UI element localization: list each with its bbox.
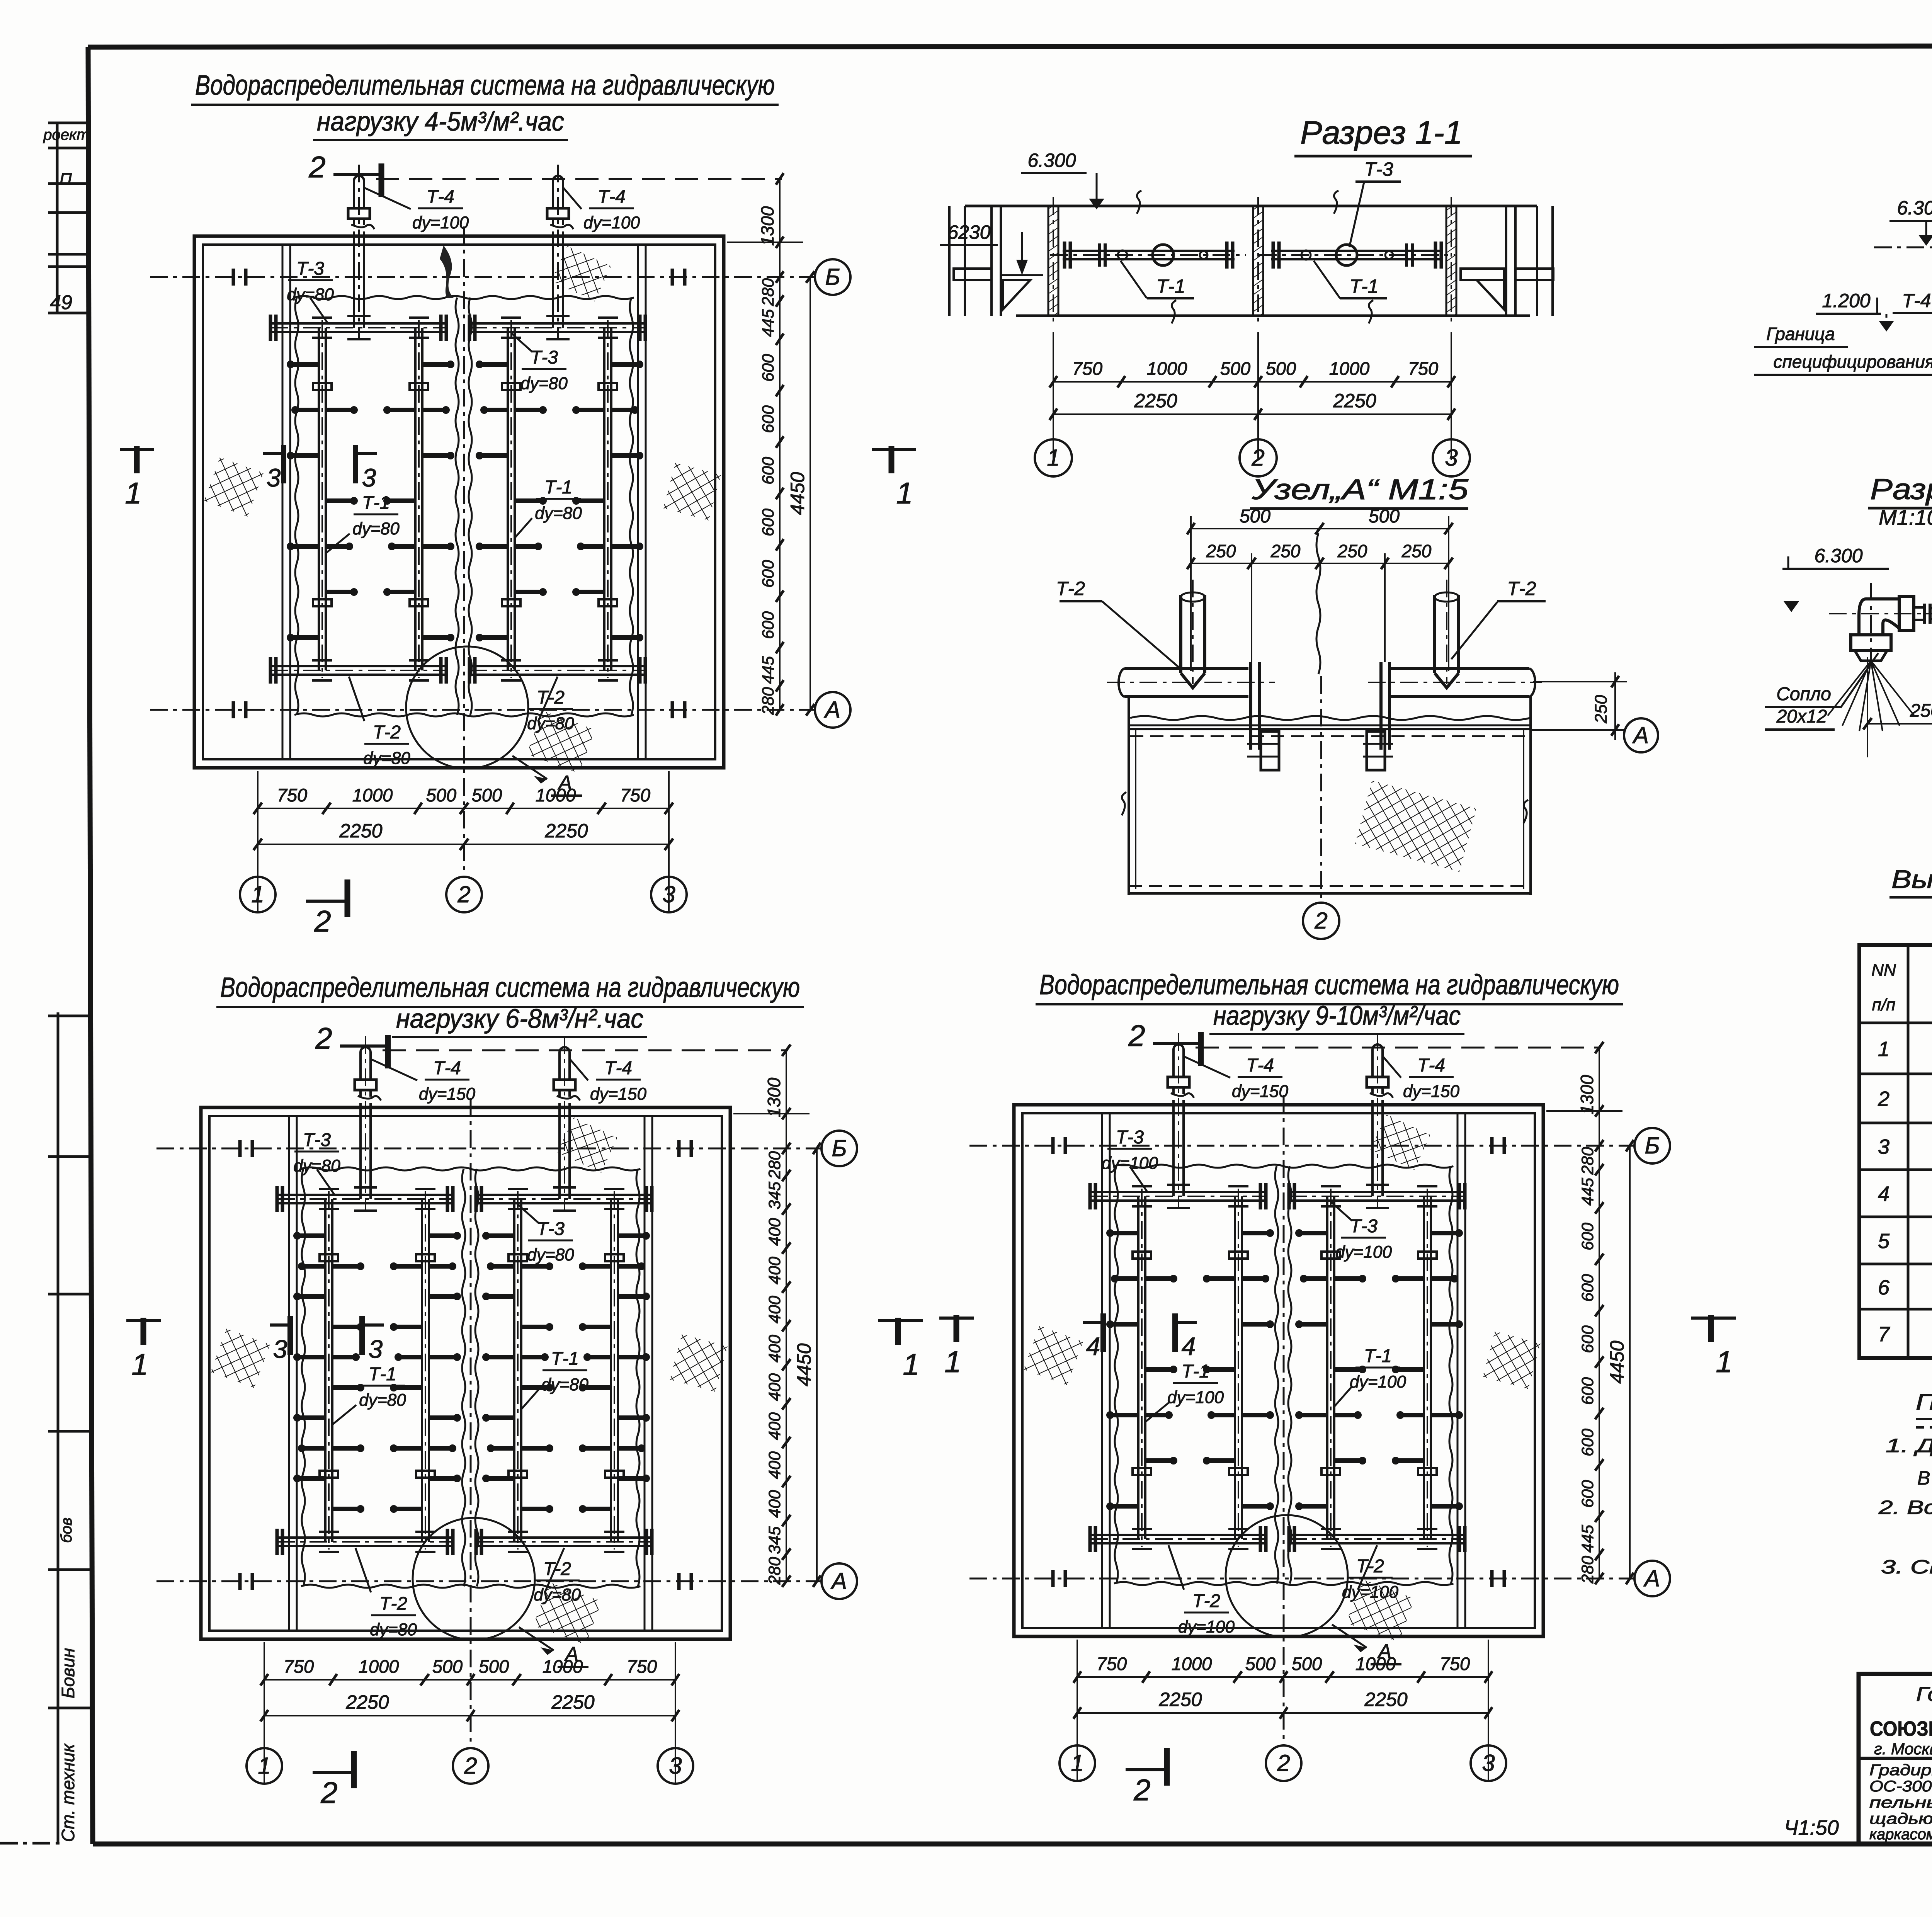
plan 4-5: top header pipe T-3 (left section) [270,315,446,341]
node A: dimension 250 x4 [1187,541,1453,569]
svg-text:dy=150: dy=150 [590,1085,647,1104]
svg-text:250: 250 [1910,701,1932,721]
svg-text:Бовин: Бовин [58,1648,78,1698]
svg-text:Т-1: Т-1 [369,1364,396,1385]
PARTS TABLE heading [1889,865,1932,941]
svg-text:500: 500 [1369,506,1400,527]
svg-text:Т-2: Т-2 [379,1594,407,1614]
PARTS TABLE header text [1871,947,1932,1019]
plan 6-8: right dimension chain [733,1044,821,1587]
section 1-1: dimension chain row1 [1049,332,1455,460]
svg-text:Т-4: Т-4 [1246,1055,1274,1076]
svg-text:400: 400 [765,1451,784,1479]
plan 6-8: lateral pipe T-1 #1 [294,1189,363,1552]
left margin signature strip [48,1012,93,1844]
plan 9-10: riser pipe T-4 #1 [1167,1033,1194,1208]
svg-text:500: 500 [1240,506,1270,527]
svg-text:2. Все трубы должны быть: 2. Все трубы должны быть покрыты антикор… [1878,1497,1932,1518]
svg-text:Водораспределительная система: Водораспределительная система на гидравл… [195,70,775,101]
svg-text:Примечания:: Примечания: [1916,1390,1932,1415]
svg-text:Т-3: Т-3 [1116,1127,1144,1148]
svg-text:1000: 1000 [543,1656,583,1677]
plan 6-8: label T-2 left [355,1548,417,1639]
svg-text:2250: 2250 [1134,390,1177,412]
svg-text:dy=100: dy=100 [583,213,640,232]
left margin stamp boxes [43,123,89,314]
svg-text:1: 1 [251,881,264,907]
plan 4-5: lateral pipe T-1 #1 [288,318,357,680]
svg-text:2: 2 [1133,1773,1150,1807]
plan 4-5: riser head axis line [376,178,782,180]
svg-text:dy=80: dy=80 [541,1375,588,1394]
svg-text:dy=150: dy=150 [1232,1082,1289,1101]
node A: water surface wavy [1130,716,1530,720]
svg-text:3: 3 [273,1335,287,1363]
svg-text:250: 250 [1401,541,1432,561]
svg-text:2: 2 [1878,1087,1889,1111]
plan 4-5: cut flag 1 left [120,446,154,510]
svg-text:Градирни с вент. ляторами: Градирни с вент. ляторами [1869,1762,1932,1779]
svg-text:нагрузку 9-10м³/м²/час: нагрузку 9-10м³/м²/час [1213,1000,1461,1031]
node A: axis А line and bubble [1532,729,1624,731]
svg-text:3: 3 [267,463,281,492]
svg-text:2250: 2250 [1333,390,1376,412]
plan 9-10: right dimension chain [1546,1042,1634,1584]
svg-text:250: 250 [1592,695,1611,724]
svg-text:1: 1 [131,1347,148,1381]
plan 4-5: axis bubbles Б А [815,259,850,728]
plan 6-8: bottom header pipe T-2 (right section) [476,1529,652,1555]
svg-text:4: 4 [1878,1182,1889,1206]
TITLE BLOCK [1859,1674,1932,1844]
plan 9-10: cut flag 2 bottom [1126,1748,1167,1807]
svg-text:600: 600 [1578,1223,1597,1250]
svg-text:2250: 2250 [339,820,382,842]
svg-text:1: 1 [944,1345,961,1379]
plan 6-8: bottom dimension chain row1 [260,1642,679,1784]
plan 9-10: bottom header pipe T-2 (right section) [1289,1526,1465,1552]
Разрез 3-3: elbow + nozzle left [1828,583,1932,731]
svg-text:1300: 1300 [1577,1075,1597,1114]
plan 6-8: section axis I-beam ticks [240,1140,691,1590]
svg-text:400: 400 [765,1373,784,1401]
svg-text:6.300: 6.300 [1897,197,1932,219]
svg-text:Т-1: Т-1 [1350,276,1379,297]
svg-text:1: 1 [896,476,913,510]
plan 9-10: water edge wavy walls [1114,1165,1453,1585]
section 1-1: right wall with ledge [1505,206,1507,316]
svg-text:Т-3: Т-3 [537,1219,565,1239]
plan 9-10: basin outer walls [1014,1105,1543,1636]
svg-text:500: 500 [432,1656,463,1677]
plan 6-8: cut flag 2 bottom [313,1751,354,1810]
svg-text:1300: 1300 [757,206,777,246]
node A: riser arrow left [1181,580,1205,688]
node A: grid bubble 2 [1303,903,1339,939]
svg-text:2: 2 [308,150,325,184]
node A: right dim 250 [1533,672,1627,740]
svg-text:специфицирования: специфицирования [1774,352,1932,372]
svg-text:1000: 1000 [536,785,576,805]
svg-text:280: 280 [765,1151,784,1179]
svg-text:250: 250 [1337,541,1367,561]
svg-text:А: А [830,1568,847,1594]
plan 9-10: label T-1 left [1146,1361,1224,1422]
svg-text:NN: NN [1871,961,1896,980]
plan 6-8: label T-4 left [371,1058,475,1104]
svg-text:2: 2 [314,904,331,938]
plan 6-8: label T-3 right [518,1204,574,1264]
svg-text:dy=100: dy=100 [412,213,469,232]
svg-text:Водораспределительная система: Водораспределительная система на гидравл… [1039,970,1619,1000]
svg-text:Т-1: Т-1 [1156,276,1185,297]
plan 4-5: label T-3 left [287,259,334,323]
svg-text:Т-1: Т-1 [1364,1346,1392,1366]
svg-text:СОЮЗВОДОКАНАЛПРОЕКТ: СОЮЗВОДОКАНАЛПРОЕКТ [1870,1717,1932,1740]
svg-text:А: А [824,697,840,723]
svg-text:Разрез 1-1: Разрез 1-1 [1300,114,1463,151]
svg-text:6.300: 6.300 [1814,545,1862,566]
svg-text:600: 600 [1578,1377,1597,1405]
svg-text:600: 600 [1578,1480,1597,1508]
plan 9-10: label T-4 left [1184,1055,1288,1101]
svg-text:1. Данный лист смотрите: 1. Данный лист смотрите совместно с лист… [1886,1435,1932,1456]
svg-text:2250: 2250 [544,820,588,842]
plan 6-8: lateral pipe T-1 #2 [391,1189,460,1552]
section 1-1: dimension chain row2 [1049,390,1455,420]
title block: design institute [1869,1683,1932,1843]
plan 6-8: riser pipe T-4 #2 [553,1036,580,1211]
plan 9-10: label T-1 right [1335,1346,1406,1406]
plan 9-10: bottom dimension chain row2 [1073,1689,1492,1719]
svg-text:Т-4: Т-4 [433,1058,461,1078]
plan 9-10: label T-2 right [1342,1545,1399,1602]
svg-text:750: 750 [1097,1653,1127,1674]
plan 9-10: cut flag 1 left [939,1315,974,1379]
svg-text:Ч1:50: Ч1:50 [1784,1816,1838,1839]
svg-text:нагрузку 4-5м³/м².час: нагрузку 4-5м³/м².час [317,106,564,136]
section 2-2: main pipe T-1 [1874,234,1932,261]
plan 6-8: bottom dimension chain row2 [260,1691,679,1721]
svg-text:1.200: 1.200 [1822,290,1870,311]
svg-text:Т-3: Т-3 [1350,1216,1378,1237]
svg-text:280: 280 [1578,1556,1597,1584]
svg-text:1000: 1000 [352,785,393,805]
plan 4-5: bottom dimension chain row1 [253,771,673,912]
svg-text:445: 445 [759,309,777,337]
svg-text:250: 250 [1206,541,1236,561]
plan 6-8: bottom header pipe T-2 (left section) [277,1529,453,1555]
svg-text:В - 1,2,3 Альбом I: В - 1,2,3 Альбом I [1917,1467,1932,1489]
plan 4-5: riser pipe T-4 #1 [347,165,374,339]
plan 6-8: label T-3 left [293,1130,340,1194]
svg-text:2: 2 [1277,1750,1290,1776]
svg-text:250: 250 [1270,541,1301,561]
section 1-1: grid bubbles 1 2 3 [1035,439,1072,476]
svg-text:3: 3 [369,1335,383,1363]
svg-text:Т-2: Т-2 [1056,578,1085,599]
plan 4-5: bottom header pipe T-2 (right section) [469,657,645,684]
svg-text:400: 400 [765,1335,784,1362]
svg-text:445: 445 [1578,1524,1597,1553]
plan 4-5: basin outer walls [194,236,724,768]
svg-text:dy=150: dy=150 [1403,1082,1460,1101]
svg-text:2: 2 [320,1776,337,1810]
svg-text:бов: бов [58,1517,75,1543]
plan 9-10: top header pipe T-3 (right section) [1289,1183,1465,1209]
plan 4-5: label T-2 left [349,677,410,768]
svg-text:280: 280 [1578,1147,1597,1175]
plan 4-5: section axis I-beam ticks [233,269,685,718]
svg-text:20х12: 20х12 [1776,706,1827,727]
svg-text:345: 345 [765,1181,784,1209]
plan 6-8: grid bubbles 1 2 3 [247,1748,693,1784]
plan 9-10: lateral pipe T-1 #2 [1204,1186,1273,1549]
svg-text:нагрузку 6-8м³/н².час: нагрузку 6-8м³/н².час [396,1004,643,1034]
svg-text:2250: 2250 [345,1691,389,1713]
svg-text:dy=80: dy=80 [535,504,582,523]
node A: dimension 500 500 [1187,506,1453,671]
plan 4-5: lateral pipe T-1 #3 [477,318,546,680]
svg-text:4450: 4450 [787,472,808,515]
svg-text:6: 6 [1878,1276,1890,1299]
svg-text:600: 600 [1578,1325,1597,1353]
plan 6-8: riser head axis line [383,1050,788,1051]
section 1-1: columns on axes 1 2 3 [1048,206,1058,316]
node A: left pipe run T-2 [1107,668,1275,697]
svg-text:3. Сварку производить элек: 3. Сварку производить электродами Э-42. [1881,1556,1932,1578]
svg-text:445: 445 [759,656,777,684]
node A: right pipe run T-2 [1368,668,1542,697]
plan 6-8: cut flag 1 left [126,1318,161,1381]
plan 9-10: grid bubbles 1 2 3 [1060,1745,1506,1781]
svg-text:600: 600 [759,405,777,433]
svg-text:dy=80: dy=80 [363,749,410,768]
plan 4-5: label T-2 right [527,677,574,733]
plan 4-5: label T-3 right [511,333,568,393]
node A: hanger flange right [1363,662,1393,770]
svg-text:Граница: Граница [1766,324,1835,344]
plan 9-10: label T-3 left [1102,1127,1158,1192]
svg-text:600: 600 [759,457,777,485]
svg-text:1000: 1000 [1355,1653,1396,1674]
plan 4-5: top header pipe T-3 (right section) [469,315,645,341]
svg-text:г. Москва: г. Москва [1874,1740,1932,1758]
svg-text:щадью 8кв и с. стальным: щадью 8кв и с. стальным [1869,1810,1932,1827]
svg-text:750: 750 [1440,1653,1470,1674]
node A: tank bottom [1129,885,1531,887]
plan 9-10: axis lines [969,1095,1634,1745]
svg-text:2250: 2250 [551,1691,594,1713]
plan 9-10: cut flag 1 right [1691,1315,1736,1379]
svg-text:600: 600 [1578,1429,1597,1456]
svg-text:750: 750 [1408,358,1438,379]
svg-text:Б: Б [832,1135,847,1161]
svg-text:280: 280 [759,687,777,715]
svg-text:6230: 6230 [947,221,990,243]
plan 6-8: water edge wavy walls [301,1167,640,1588]
svg-text:2: 2 [1128,1019,1145,1053]
svg-text:280: 280 [759,278,777,306]
svg-text:750: 750 [277,785,307,805]
plan 6-8: label T-1 left [333,1364,406,1424]
ink smudge blob on plan 4-5 [440,245,454,298]
section 1-1: ceiling slab line [965,205,1537,208]
svg-text:1: 1 [1878,1038,1889,1061]
node A: tank walls [1128,697,1130,895]
svg-text:600: 600 [759,560,777,588]
svg-text:dy=100: dy=100 [1335,1243,1392,1262]
node A: hanger flange left [1247,662,1279,770]
svg-text:4: 4 [1086,1332,1100,1361]
plan 4-5: cut flag 1 right [872,446,916,510]
svg-text:ОС-300№12,5 пленочные и ку-: ОС-300№12,5 пленочные и ку- [1869,1778,1932,1795]
svg-text:3: 3 [1878,1135,1889,1158]
svg-text:500: 500 [472,785,502,805]
plan 6-8: cut flag 1 right [878,1318,923,1381]
svg-text:600: 600 [759,354,777,382]
section 1-1: pipe T-1 bay 1 [1050,242,1246,269]
svg-text:1: 1 [125,476,141,510]
svg-text:3: 3 [1445,445,1458,471]
plan 9-10: title [1036,970,1623,1034]
svg-text:750: 750 [284,1656,314,1677]
Разрез 3-3: dimension 250 250 [1863,657,1932,757]
svg-text:роект: роект [43,126,89,143]
svg-text:Ст. техник: Ст. техник [58,1743,78,1842]
plan 4-5: cut flag 2 top [308,150,381,197]
plan 9-10: top header pipe T-3 (left section) [1090,1183,1266,1209]
PARTS TABLE grid [1859,945,1932,1358]
svg-text:280: 280 [765,1557,784,1585]
plan 6-8: cut flag 2 top [315,1021,388,1068]
svg-text:Т-4: Т-4 [604,1058,632,1078]
svg-text:dy=80: dy=80 [370,1620,417,1639]
svg-text:dy=80: dy=80 [287,285,334,304]
plan 9-10: riser pipe T-4 #2 [1366,1033,1393,1208]
plan 4-5: cut flags 3 inside [263,445,377,492]
section 1-1: floor line [1016,315,1530,317]
plan 9-10: mesh hatch patches [1024,1114,1541,1642]
svg-text:750: 750 [627,1656,657,1677]
svg-text:2: 2 [1251,445,1264,471]
plan 9-10: label T-3 right [1331,1202,1392,1262]
svg-text:каркасом: каркасом [1869,1826,1932,1843]
NOTES (Primechaniya) [1878,1364,1932,1578]
plan 4-5: label T-1 left [326,493,400,553]
NODE A DETAIL (Uzel A M1:5) [1056,473,1658,939]
svg-text:3: 3 [1482,1750,1495,1776]
plan 4-5: lateral pipe T-1 #2 [384,318,453,680]
svg-text:А: А [1632,722,1649,748]
plan 4-5: label T-4 left [364,187,469,232]
svg-text:400: 400 [765,1412,784,1440]
plan 6-8: detail circle A [413,1518,588,1667]
plan 4-5: lateral pipe T-1 #4 [573,318,642,680]
plan 9-10: label T-4 right [1383,1055,1459,1101]
svg-text:500: 500 [479,1656,509,1677]
plan 4-5: label T-4 right [563,187,640,232]
svg-text:Т-3: Т-3 [296,259,324,279]
plan 4-5: cut flag 2 bottom [306,879,347,938]
svg-text:2250: 2250 [1364,1689,1407,1710]
svg-text:1000: 1000 [1147,358,1187,379]
svg-text:Водораспределительная система: Водораспределительная система на гидравл… [220,972,800,1003]
svg-text:Т-2: Т-2 [1192,1591,1220,1611]
svg-text:dy=80: dy=80 [520,374,568,393]
bottom left frame dashes [0,1842,62,1845]
svg-text:Б: Б [825,264,840,290]
svg-text:345: 345 [765,1526,784,1554]
plan 6-8: title [216,972,804,1037]
svg-text:dy=150: dy=150 [419,1085,476,1104]
plan 4-5: detail circle A [406,646,582,796]
plan 6-8: axis lines [156,1098,821,1748]
svg-text:dy=100: dy=100 [1167,1388,1224,1407]
svg-text:600: 600 [759,509,777,536]
svg-text:Т-4: Т-4 [1417,1055,1445,1076]
svg-text:Т-1: Т-1 [551,1349,579,1369]
svg-text:1000: 1000 [1329,358,1370,379]
svg-text:2250: 2250 [1158,1689,1202,1710]
plan 4-5: title [191,70,779,140]
plan 6-8: top header pipe T-3 (right section) [476,1186,652,1212]
svg-text:2: 2 [457,881,470,907]
svg-text:Т-3: Т-3 [303,1130,331,1150]
svg-text:П: П [60,170,72,189]
section 1-1: left wall with ledge [990,206,993,316]
plan 4-5: right dimension chain [727,173,815,716]
svg-text:Разрез 3-3: Разрез 3-3 [1870,473,1932,506]
svg-text:500: 500 [1292,1653,1322,1674]
svg-text:500: 500 [426,785,456,805]
plan 6-8: top header pipe T-3 (left section) [277,1186,453,1212]
plan 6-8: basin outer walls [201,1107,730,1639]
svg-text:750: 750 [620,785,650,805]
svg-text:1: 1 [1071,1750,1083,1776]
svg-text:Т-2: Т-2 [373,722,401,743]
svg-text:445: 445 [1578,1177,1597,1206]
plan 6-8: lateral pipe T-1 #4 [580,1189,649,1552]
svg-text:Т-3: Т-3 [530,347,558,368]
svg-text:3: 3 [669,1753,682,1779]
svg-text:6.300: 6.300 [1027,150,1076,171]
plan 6-8: label T-4 right [570,1058,646,1104]
svg-text:4450: 4450 [1606,1340,1628,1383]
plan 6-8: mesh hatch patches [211,1117,728,1645]
svg-text:49: 49 [50,291,72,314]
svg-text:600: 600 [759,611,777,639]
svg-text:2: 2 [464,1753,477,1779]
svg-text:М1:10: М1:10 [1879,505,1932,529]
plan 6-8: label T-1 right [522,1349,588,1409]
svg-text:400: 400 [765,1218,784,1246]
svg-text:dy=100: dy=100 [1102,1154,1158,1173]
plan 4-5: grid bubbles 1 2 3 [240,877,687,912]
svg-text:1000: 1000 [1172,1653,1212,1674]
svg-text:1000: 1000 [359,1656,399,1677]
svg-text:dy=100: dy=100 [1350,1373,1406,1391]
svg-text:1: 1 [1047,445,1060,471]
svg-text:400: 400 [765,1490,784,1518]
svg-text:Узел„А“ М1:5: Узел„А“ М1:5 [1252,473,1469,505]
svg-text:Т-4: Т-4 [427,187,454,207]
svg-text:750: 750 [1072,358,1102,379]
plan 6-8: lateral pipe T-1 #3 [483,1189,552,1552]
svg-text:Т-1: Т-1 [1182,1361,1209,1382]
svg-text:А: А [1643,1565,1660,1591]
plan 4-5: mesh hatch patches [204,246,721,773]
